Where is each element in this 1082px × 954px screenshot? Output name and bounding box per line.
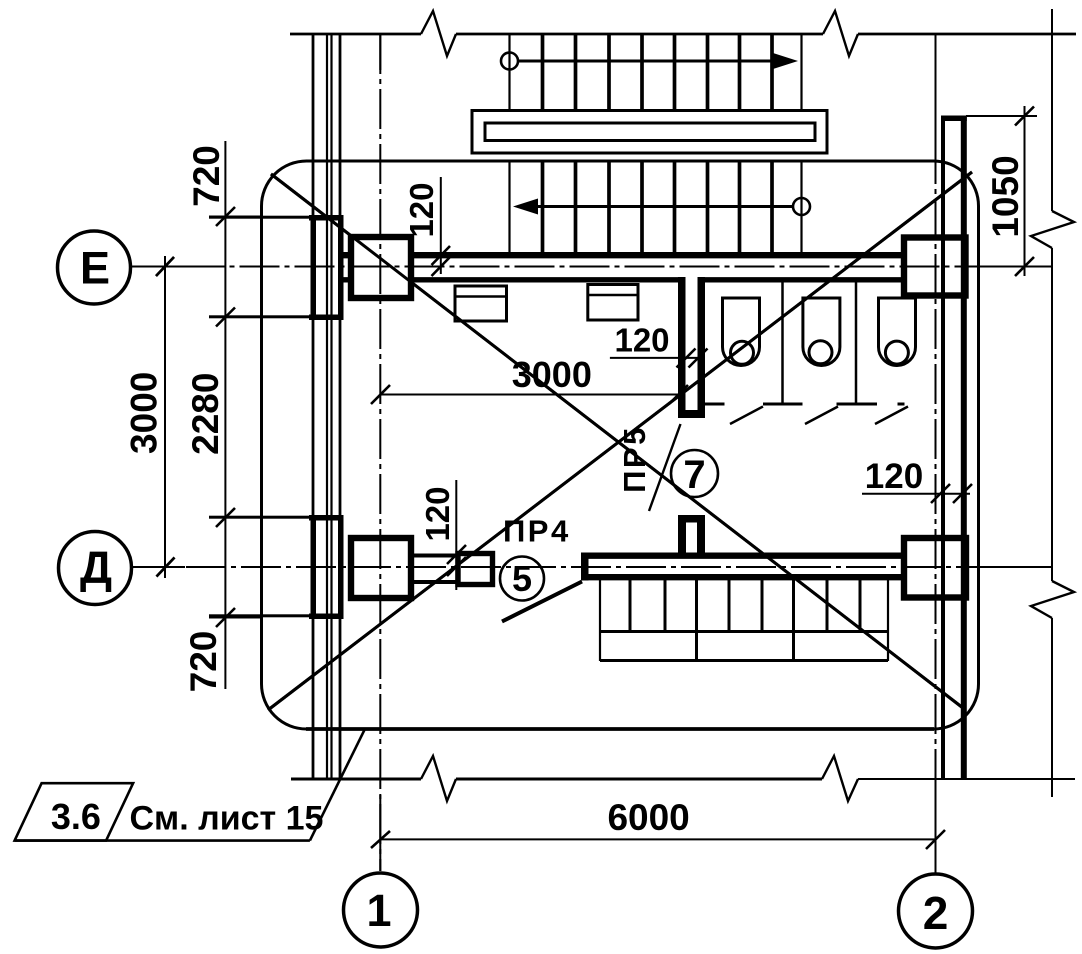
- svg-text:120: 120: [614, 322, 669, 359]
- title parallelogram 3.6: [15, 783, 134, 840]
- left wall vertical lines: [313, 34, 340, 778]
- right wall outer line: [961, 116, 967, 779]
- dimension chain left: 2280 line: [209, 141, 263, 689]
- stall door swing slashes: [730, 407, 908, 425]
- svg-text:ПР4: ПР4: [503, 514, 571, 549]
- svg-text:5: 5: [512, 558, 532, 599]
- fragment cross diagonal BL-TR: [268, 172, 972, 710]
- fragment boundary rounded rectangle: [262, 161, 979, 729]
- svg-text:1050: 1050: [985, 155, 1026, 237]
- stall front segments: [705, 403, 905, 406]
- stair landing: [472, 111, 827, 154]
- wall stub above axis D wall: [678, 515, 705, 553]
- wall on axis D left jamb: [581, 553, 589, 581]
- axis E line: [130, 257, 1053, 276]
- column at axis E / 1: [351, 237, 411, 298]
- lintel PR4 beam lines: [412, 554, 459, 558]
- svg-text:720: 720: [186, 145, 227, 207]
- svg-text:См. лист 15: См. лист 15: [130, 800, 324, 838]
- column at axis D / 1: [351, 538, 411, 598]
- svg-text:120: 120: [403, 182, 440, 237]
- svg-text:6000: 6000: [607, 797, 689, 838]
- far right vertical line with break symbols: [1031, 9, 1074, 797]
- urinal 1: [723, 298, 760, 366]
- axis circle 2: [899, 874, 973, 948]
- svg-text:120: 120: [865, 457, 923, 496]
- fragment cross diagonal TL-BR: [271, 174, 963, 708]
- sink 2: [588, 285, 638, 321]
- dimension 3000 middle: [371, 385, 688, 404]
- axis 2 line: [935, 34, 937, 874]
- leader line for circle 7: [649, 424, 681, 511]
- stair flight 2 treads: [510, 163, 802, 253]
- svg-text:Д: Д: [80, 542, 112, 593]
- wall on axis E bottom face: [343, 277, 679, 282]
- callout circle 5: [500, 557, 544, 601]
- axis circle D: [59, 532, 132, 605]
- title parallelogram bottom edge and leader: [15, 839, 310, 842]
- svg-text:3.6: 3.6: [51, 796, 101, 837]
- dimension 120 right: [862, 484, 972, 503]
- toilet stall partitions: [781, 283, 784, 404]
- svg-text:2: 2: [923, 887, 949, 939]
- right wall inner line: [941, 116, 945, 779]
- svg-text:Е: Е: [80, 243, 110, 294]
- axis circle 1: [344, 873, 418, 947]
- dimension 120 middle: [610, 349, 708, 368]
- dimension 3000 left line: [156, 256, 175, 578]
- axis circle E: [58, 231, 131, 304]
- wall on axis D bottom face: [581, 574, 904, 580]
- wall on axis D top face: [581, 553, 904, 559]
- stair flight 1 treads: [510, 35, 802, 110]
- svg-text:7: 7: [683, 453, 705, 497]
- axis 1 line: [371, 34, 390, 871]
- svg-text:3000: 3000: [512, 354, 592, 395]
- svg-text:2280: 2280: [185, 373, 226, 455]
- wall top line with break symbols: [290, 11, 1076, 56]
- svg-text:120: 120: [419, 486, 456, 541]
- lower stair flight treads: [600, 580, 888, 661]
- svg-text:ПР5: ПР5: [617, 425, 652, 493]
- wall on axis E top face: [343, 252, 904, 258]
- stair landing inner slab: [485, 123, 815, 141]
- svg-text:3000: 3000: [124, 372, 165, 454]
- stair flight 2 walk line arrow: [513, 198, 810, 215]
- fragment bottom edge emphasis: [306, 727, 934, 731]
- pier at axis E / 2: [904, 238, 966, 296]
- right wall lines across piers: [941, 238, 945, 296]
- axis D line: [131, 558, 1052, 577]
- urinal 3: [879, 298, 916, 366]
- callout circle 7: [671, 450, 718, 497]
- pier at axis D / 2: [904, 538, 966, 598]
- sink 1: [455, 286, 507, 321]
- pilaster at axis E: [209, 215, 344, 320]
- svg-text:1: 1: [366, 885, 391, 936]
- pilaster at axis D: [209, 515, 344, 619]
- fragment diagonals redrawn over columns: [271, 174, 963, 708]
- dimension 1050 right: [966, 106, 1037, 276]
- wall bottom line with break symbols: [291, 756, 1075, 801]
- door leaf on axis D: [502, 582, 582, 622]
- dimension 120 top left: [432, 177, 451, 276]
- urinal 2: [803, 298, 840, 366]
- svg-text:720: 720: [183, 631, 224, 693]
- right wall top cap: [941, 116, 967, 122]
- dimension 6000 bottom: [380, 830, 945, 849]
- dimension 120 at D: [447, 480, 466, 590]
- partition wall with lintel PR5 opening: [678, 277, 705, 418]
- lintel PR4 end block: [458, 554, 493, 585]
- stair flight 1 walk line arrow: [501, 53, 798, 70]
